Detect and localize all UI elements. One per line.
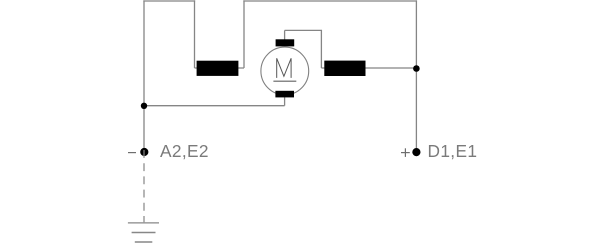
motor M underline: [273, 80, 296, 82]
svg-text:D1,E1: D1,E1: [428, 141, 478, 161]
plus sign: [401, 148, 410, 157]
ground symbol: [128, 223, 159, 242]
junction dot left: [141, 103, 147, 109]
wire right coil lead horizontal: [321, 67, 416, 69]
motor letter M: [277, 58, 291, 78]
svg-text:A2,E2: A2,E2: [160, 141, 209, 161]
wire vertical from motor top loop to right coil: [320, 30, 322, 68]
wire bottom horizontal to left junction: [144, 105, 285, 107]
wire motor bottom brush stub: [284, 95, 286, 106]
wire right vertical from top rail to plus terminal: [415, 0, 417, 152]
wire motor top brush stub: [284, 30, 286, 41]
wire vertical into left coil left lead: [194, 0, 196, 68]
wire left vertical from top rail to minus terminal: [143, 0, 145, 152]
wire vertical from left coil right lead to top rail: [243, 0, 245, 68]
wire horizontal above motor: [285, 29, 322, 31]
wire top rail right segment: [243, 0, 417, 2]
junction dot right: [413, 65, 420, 72]
wire top rail left segment: [143, 0, 195, 2]
resistor coil right (series winding): [324, 61, 365, 76]
motor top brush: [276, 39, 295, 46]
terminal dot D1,E1: [412, 148, 420, 156]
minus sign: [128, 152, 136, 154]
motor circle U1: [261, 47, 309, 95]
wire left coil lead horizontal: [195, 67, 245, 69]
terminal dot A2,E2: [140, 148, 148, 156]
resistor coil left (series winding): [197, 61, 239, 76]
dashed wire to ground: [143, 150, 145, 222]
motor bottom brush: [275, 91, 294, 98]
